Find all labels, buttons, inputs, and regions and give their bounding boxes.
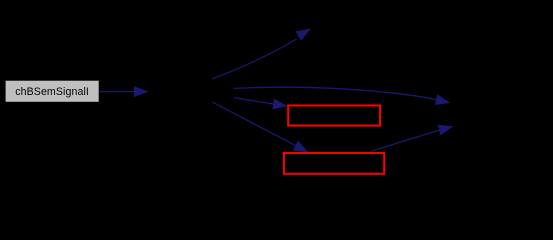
- wire: edge hub to red box 2: [213, 102, 297, 146]
- arrowhead into top node: [296, 29, 311, 41]
- red box 1 (truncated node): [288, 106, 380, 126]
- node chBSemSignalI (gray): [6, 81, 99, 102]
- red box 2 (truncated node): [284, 153, 384, 174]
- wire: edge red box 2 to right node: [371, 130, 440, 151]
- arrowhead into right node (upper): [435, 94, 450, 105]
- svg-text:chBSemSignalI: chBSemSignalI: [15, 86, 89, 98]
- wire: edge hub to top node: [212, 39, 297, 79]
- arrowhead into hub: [134, 86, 149, 97]
- wire: edge chBSemSignalI to hub: [99, 91, 135, 93]
- arrowhead into red box 1: [272, 99, 287, 110]
- wire: long curved edge hub to right node: [234, 87, 438, 100]
- arrowhead into red box 2: [293, 141, 308, 153]
- wire: edge hub to red box 1: [234, 98, 275, 105]
- arrowhead into right node (lower): [438, 125, 453, 136]
